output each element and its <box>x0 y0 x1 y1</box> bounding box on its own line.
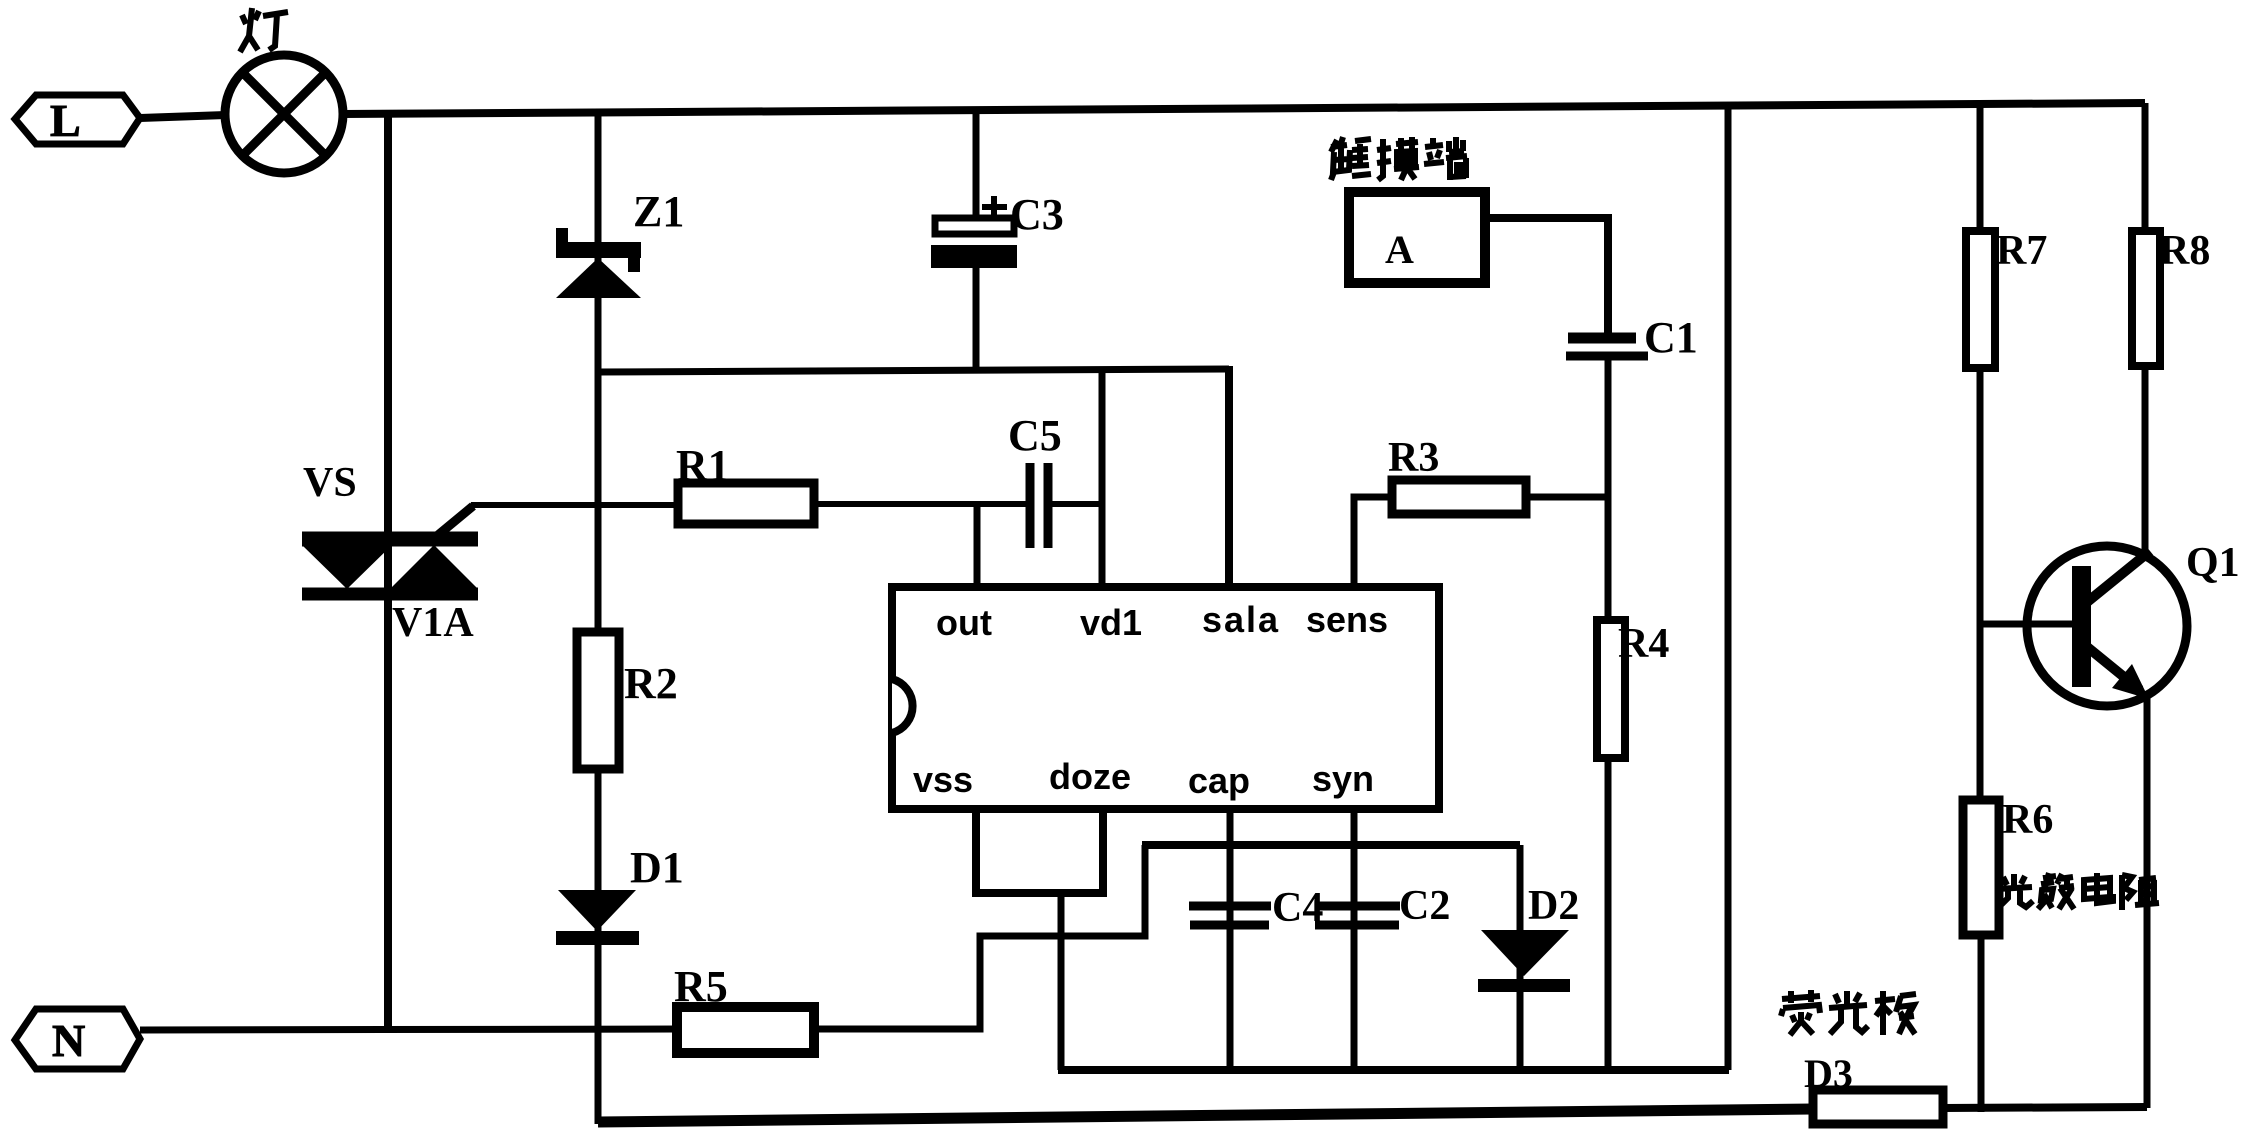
svg-text:VS: VS <box>303 460 357 506</box>
terminal N <box>15 1009 140 1069</box>
wire zener Z1 vertical <box>595 111 602 1124</box>
wire out pin vertical <box>974 504 981 590</box>
resistor R5 <box>674 962 814 1053</box>
svg-text:R4: R4 <box>1618 621 1669 667</box>
resistor R4 <box>1597 620 1669 758</box>
wire capacitor section bottom rail <box>1058 1066 1729 1074</box>
wire doze pin down <box>1099 809 1107 893</box>
wire bottom rail right <box>1943 1107 2147 1108</box>
svg-text:L: L <box>50 95 81 146</box>
svg-text:sens: sens <box>1306 599 1388 640</box>
svg-text:C1: C1 <box>1644 313 1698 362</box>
wire vss pin down <box>972 809 980 893</box>
wire L to lamp <box>140 115 226 118</box>
wire vss-doze to bottom rail <box>1058 893 1065 1070</box>
diode D1 <box>556 843 684 945</box>
capacitor C1 <box>1566 313 1698 362</box>
wire triac vertical <box>384 113 392 1030</box>
wire sens pin vertical <box>1354 497 1392 587</box>
lamp label 灯 <box>240 8 288 52</box>
svg-text:V1A: V1A <box>392 600 474 646</box>
capacitor C2 <box>1315 809 1450 1070</box>
svg-text:A: A <box>1385 227 1414 272</box>
svg-text:C5: C5 <box>1008 411 1062 460</box>
wire Q1 emitter down <box>2144 698 2151 1108</box>
svg-text:R2: R2 <box>624 659 678 708</box>
terminal L <box>15 95 140 146</box>
wire long vertical from top rail <box>1725 104 1732 1070</box>
svg-text:Z1: Z1 <box>633 187 684 236</box>
svg-text:R8: R8 <box>2159 228 2210 274</box>
wire N rail <box>140 1029 678 1030</box>
resistor R6 <box>1963 797 2053 935</box>
label 光敏电阻 <box>1997 873 2159 910</box>
wire vd1 pin vertical <box>1099 369 1106 590</box>
svg-text:D1: D1 <box>630 843 684 892</box>
zener Z1 <box>556 228 641 298</box>
wire top rail <box>343 103 2145 114</box>
resistor R8 <box>2132 228 2210 366</box>
lamp <box>225 55 343 173</box>
capacitor C5 <box>1008 411 1062 548</box>
transistor Q1 <box>2027 540 2240 706</box>
svg-text:vd1: vd1 <box>1080 602 1142 643</box>
wire vss-doze joining <box>972 889 1107 897</box>
svg-text:D2: D2 <box>1528 883 1579 929</box>
wire R1 to C5 <box>814 501 1026 507</box>
wire capacitor section top <box>1142 841 1520 849</box>
svg-text:cap: cap <box>1188 760 1250 801</box>
svg-text:out: out <box>936 602 992 643</box>
triac VS <box>302 506 478 594</box>
wire bottom rail left <box>598 1109 1813 1122</box>
wire R4 to bottom rail <box>1605 758 1612 1070</box>
svg-text:C3: C3 <box>1010 190 1064 239</box>
svg-text:R1: R1 <box>676 441 730 490</box>
wire R6 to bottom rail <box>1978 935 1985 1112</box>
svg-text:vss: vss <box>913 759 973 800</box>
svg-text:sala: sala <box>1202 599 1280 640</box>
resistor R1 <box>676 441 814 524</box>
svg-text:doze: doze <box>1049 756 1131 797</box>
op-amp U1 (IC box) <box>892 587 1439 809</box>
resistor R3 <box>1388 435 1526 514</box>
capacitor C3 <box>931 110 1064 371</box>
resistor D3 <box>1813 1090 1943 1124</box>
svg-text:R3: R3 <box>1388 435 1439 481</box>
wire sala pin vertical <box>1225 366 1233 590</box>
wire R3 to C1 line <box>1526 494 1608 501</box>
wire R7 branch vertical <box>1977 104 1984 231</box>
svg-text:R6: R6 <box>2002 797 2053 843</box>
svg-text:C2: C2 <box>1399 883 1450 929</box>
wire C1 down through R3 node to R4 <box>1605 360 1612 620</box>
resistor R2 <box>577 632 678 769</box>
svg-text:R7: R7 <box>1996 228 2047 274</box>
wire gate to R1 <box>471 502 678 508</box>
wire C5 to vd1 line <box>1052 501 1102 507</box>
wire mid horizontal <box>598 369 1229 372</box>
capacitor C4 <box>1189 809 1323 1070</box>
wire touch pad to C1 <box>1485 218 1608 334</box>
diode D2 <box>1478 845 1579 1070</box>
svg-text:N: N <box>52 1015 85 1066</box>
svg-text:Q1: Q1 <box>2186 540 2240 586</box>
svg-text:syn: syn <box>1312 758 1374 799</box>
wire Q1 base lead <box>1980 621 2072 628</box>
label 荧光板 <box>1781 990 1916 1035</box>
wire R5 to C-section top (staircase) <box>814 845 1145 1029</box>
touch pad A <box>1349 192 1485 283</box>
svg-text:R5: R5 <box>674 962 728 1011</box>
label 触摸端 <box>1331 137 1467 180</box>
resistor R7 <box>1966 228 2047 368</box>
wire R8 to Q1 collector <box>2142 366 2149 556</box>
wire R8 branch vertical <box>2142 103 2149 231</box>
wire R7 to R6 <box>1977 368 1984 800</box>
